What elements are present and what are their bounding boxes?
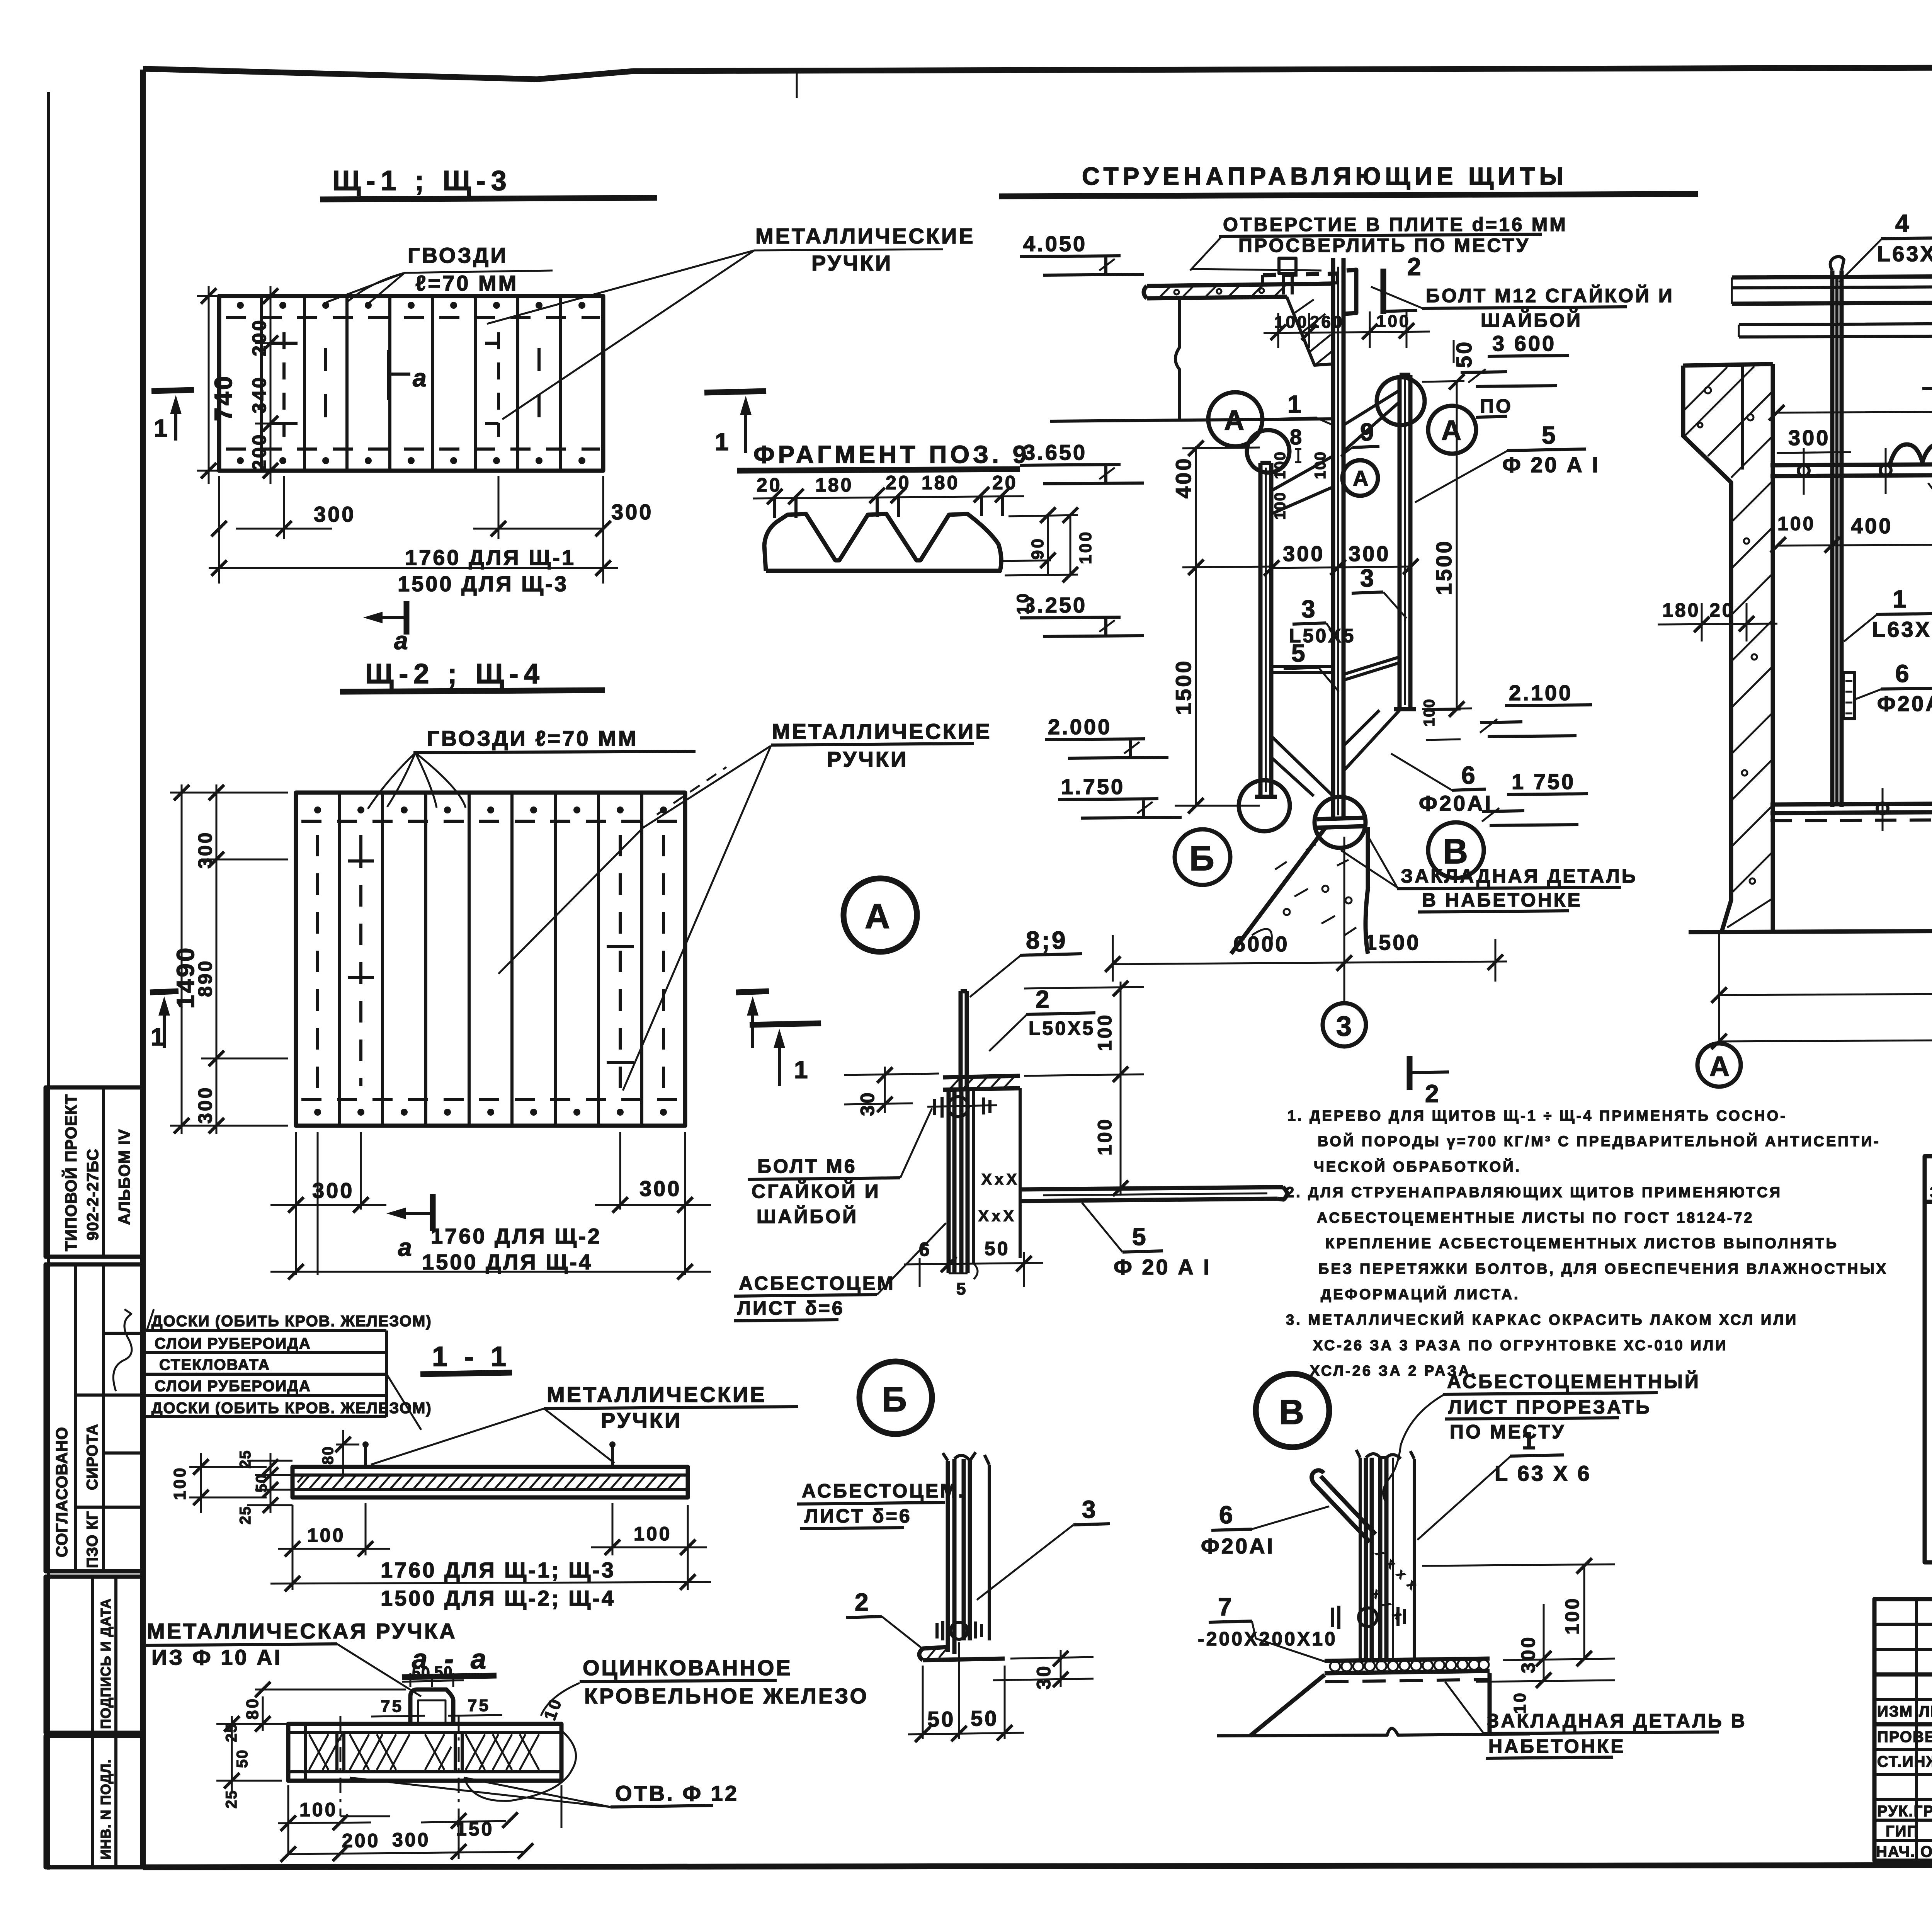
svg-text:А: А xyxy=(1709,1051,1731,1082)
svg-text:50: 50 xyxy=(971,1706,998,1730)
svg-text:ФРАГМЕНТ ПОЗ. 9: ФРАГМЕНТ ПОЗ. 9 xyxy=(753,441,1030,468)
svg-text:25: 25 xyxy=(223,1790,240,1809)
svg-text:СЛОИ РУБЕРОИДА: СЛОИ РУБЕРОИДА xyxy=(155,1335,311,1352)
main post L63 xyxy=(1333,258,1344,819)
svg-text:А: А xyxy=(1224,405,1246,436)
svg-text:А: А xyxy=(1441,415,1463,446)
svg-text:50: 50 xyxy=(927,1707,955,1731)
svg-text:МЕТАЛЛИЧЕСКИЕ: МЕТАЛЛИЧЕСКИЕ xyxy=(772,719,992,744)
svg-text:100: 100 xyxy=(1777,513,1815,534)
weld x marks on diagonal xyxy=(1369,1545,1421,1624)
hatched core segments xyxy=(309,1734,539,1770)
svg-text:ДЕФОРМАЦИЙ ЛИСТА.: ДЕФОРМАЦИЙ ЛИСТА. xyxy=(1321,1285,1520,1303)
svg-text:МЕТАЛЛИЧЕСКАЯ РУЧКА: МЕТАЛЛИЧЕСКАЯ РУЧКА xyxy=(147,1619,457,1643)
svg-text:3: 3 xyxy=(1301,595,1317,623)
svg-text:АСБЕСТОЦЕМЕНТНЫЙ: АСБЕСТОЦЕМЕНТНЫЙ xyxy=(1447,1370,1701,1392)
stamp box: project name xyxy=(46,1087,143,1257)
bottom section mark a xyxy=(430,1194,436,1231)
signature scribble xyxy=(113,1309,132,1391)
svg-text:5: 5 xyxy=(1291,639,1307,667)
svg-text:1500: 1500 xyxy=(1171,659,1196,715)
svg-text:400: 400 xyxy=(1851,514,1893,538)
svg-text:2. ДЛЯ СТРУЕНАПРАВЛЯЮЩИХ ЩИТО: 2. ДЛЯ СТРУЕНАПРАВЛЯЮЩИХ ЩИТОВ ПРИМЕНЯЮТ… xyxy=(1286,1184,1782,1201)
bolt M6 assembly xyxy=(927,1097,997,1118)
section mark 2 bottom xyxy=(1407,1056,1413,1090)
svg-text:А: А xyxy=(1353,466,1370,490)
angle leg with hatch xyxy=(943,1076,1020,1090)
svg-text:100: 100 xyxy=(1561,1597,1583,1635)
svg-text:Щ-2 ; Щ-4: Щ-2 ; Щ-4 xyxy=(365,658,545,689)
svg-text:300: 300 xyxy=(1788,425,1830,450)
svg-text:7: 7 xyxy=(1218,1593,1234,1621)
svg-text:1 - 1: 1 - 1 xyxy=(432,1341,511,1372)
svg-text:4.050: 4.050 xyxy=(1023,231,1087,256)
section mark 1 left xyxy=(151,390,194,391)
svg-text:ХС-26 ЗА 3 РАЗА ПО ОГРУНТ: ХС-26 ЗА 3 РАЗА ПО ОГРУНТОВКЕ ХС-010 ИЛИ xyxy=(1313,1337,1728,1354)
svg-text:ПЗО КГ: ПЗО КГ xyxy=(84,1511,101,1568)
circle joint right xyxy=(1377,377,1425,425)
svg-text:ПРОВЕР.: ПРОВЕР. xyxy=(1877,1729,1932,1746)
svg-text:ЭЛЕМЕНТА: ЭЛЕМЕНТА xyxy=(1930,1183,1932,1202)
svg-text:1.750: 1.750 xyxy=(1061,774,1125,799)
svg-text:100: 100 xyxy=(1312,451,1329,479)
handles on top xyxy=(366,1446,612,1467)
svg-text:ХхХ: ХхХ xyxy=(978,1208,1017,1225)
post 1 left xyxy=(1832,271,1842,807)
svg-text:Ф20АI: Ф20АI xyxy=(1877,691,1932,716)
dim 30 at B xyxy=(993,1650,1094,1687)
svg-text:1500: 1500 xyxy=(1432,539,1456,595)
circle mark A left xyxy=(1208,392,1262,446)
svg-text:а: а xyxy=(413,364,429,392)
layer list xyxy=(142,1309,432,1430)
svg-text:300: 300 xyxy=(1283,541,1325,566)
svg-text:100: 100 xyxy=(299,1799,337,1821)
svg-text:РУЧКИ: РУЧКИ xyxy=(811,251,893,275)
circled axis 3 xyxy=(1344,982,1345,1003)
section mark 2 top xyxy=(1381,269,1386,314)
svg-text:902-2-27БС: 902-2-27БС xyxy=(83,1148,102,1240)
bottom section mark a xyxy=(404,601,410,635)
bottom dims 100 200 300 150 xyxy=(278,1785,561,1859)
foundation pier xyxy=(1231,827,1368,954)
braces top xyxy=(1271,390,1400,514)
svg-text:СТРУЕНАПРАВЛЯЮЩИЕ ЩИТЫ: СТРУЕНАПРАВЛЯЮЩИЕ ЩИТЫ xyxy=(1082,162,1568,190)
sheet stack vertical xyxy=(948,1459,970,1654)
svg-text:СГАЙКОЙ И: СГАЙКОЙ И xyxy=(752,1180,881,1202)
svg-text:а: а xyxy=(398,1234,414,1261)
svg-text:1760 ДЛЯ Щ-2: 1760 ДЛЯ Щ-2 xyxy=(431,1224,602,1248)
section mark 1 right xyxy=(704,391,766,393)
upper sheet bar xyxy=(961,991,967,1090)
bolt at V foot xyxy=(1332,1606,1405,1629)
stamp box: soglasovano xyxy=(46,1264,143,1571)
svg-text:ЧЕСКОЙ ОБРАБОТКОЙ.: ЧЕСКОЙ ОБРАБОТКОЙ. xyxy=(1314,1158,1521,1175)
left dims 300 890 300 1490 xyxy=(170,784,288,1134)
svg-text:50: 50 xyxy=(434,1664,453,1681)
bottom dims 300 300 xyxy=(219,476,603,584)
svg-text:180: 180 xyxy=(922,472,959,493)
svg-text:180: 180 xyxy=(815,474,853,496)
svg-text:МЕТАЛЛИЧЕСКИЕ: МЕТАЛЛИЧЕСКИЕ xyxy=(755,224,975,248)
nail dots xyxy=(314,806,667,1116)
section mark 1 left of A xyxy=(750,1023,821,1025)
svg-text:Б: Б xyxy=(1189,839,1216,878)
svg-text:1: 1 xyxy=(1522,1427,1537,1455)
svg-text:1. ДЕРЕВО ДЛЯ ЩИТОВ Щ-1 ÷ Щ-4: 1. ДЕРЕВО ДЛЯ ЩИТОВ Щ-1 ÷ Щ-4 ПРИМЕНЯТЬ … xyxy=(1287,1108,1787,1124)
svg-text:ШАЙБОЙ: ШАЙБОЙ xyxy=(757,1205,858,1227)
svg-text:100: 100 xyxy=(1094,1013,1116,1051)
left dims 25 50 25 100 xyxy=(189,1453,293,1513)
corrugated profile 9 xyxy=(1889,441,1932,466)
panel section strip xyxy=(293,1467,688,1497)
svg-text:50: 50 xyxy=(1452,340,1476,368)
svg-text:ОТВ. Ф 12: ОТВ. Ф 12 xyxy=(615,1781,739,1805)
svg-text:Ф20АI: Ф20АI xyxy=(1419,791,1493,815)
left dim column 400 1500 xyxy=(1175,446,1275,806)
svg-text:Ф 20 А I: Ф 20 А I xyxy=(1114,1255,1211,1279)
circle mark a small xyxy=(1342,460,1378,496)
concrete wall left xyxy=(1683,364,1773,931)
svg-text:300: 300 xyxy=(1517,1635,1539,1673)
svg-text:8: 8 xyxy=(1290,425,1304,449)
svg-text:АСБЕСТОЦЕМ.: АСБЕСТОЦЕМ. xyxy=(802,1480,966,1502)
svg-text:75: 75 xyxy=(381,1697,403,1716)
svg-text:6: 6 xyxy=(1895,660,1911,687)
svg-text:100: 100 xyxy=(307,1524,345,1546)
far-left trim line xyxy=(47,92,50,1870)
bolt at foot xyxy=(937,1621,981,1640)
svg-text:3.650: 3.650 xyxy=(1023,440,1087,464)
svg-text:5: 5 xyxy=(1132,1223,1148,1251)
svg-text:3 600: 3 600 xyxy=(1492,331,1556,356)
circle joint left xyxy=(1247,430,1289,473)
svg-text:БОЛТ М6: БОЛТ М6 xyxy=(757,1155,857,1177)
svg-text:КРОВЕЛЬНОЕ ЖЕЛЕЗО: КРОВЕЛЬНОЕ ЖЕЛЕЗО xyxy=(584,1684,869,1708)
svg-text:300: 300 xyxy=(1349,541,1390,566)
handle loop on top xyxy=(410,1690,453,1724)
svg-text:20: 20 xyxy=(1709,599,1735,621)
svg-text:6: 6 xyxy=(1219,1501,1235,1529)
foot plate xyxy=(919,1647,1005,1660)
svg-text:ЛИСТ ПРОРЕЗАТЬ: ЛИСТ ПРОРЕЗАТЬ xyxy=(1448,1396,1651,1418)
svg-text:8;9: 8;9 xyxy=(1026,926,1068,954)
bottom dims 50 50 at B xyxy=(908,1642,1024,1739)
svg-text:300: 300 xyxy=(314,502,355,526)
svg-text:25: 25 xyxy=(237,1506,254,1525)
svg-text:3: 3 xyxy=(1082,1496,1098,1523)
svg-text:1: 1 xyxy=(1287,390,1303,418)
bottom dims 300 300 xyxy=(270,1132,711,1275)
svg-text:АСБЕСТОЦЕМ: АСБЕСТОЦЕМ xyxy=(739,1273,895,1294)
section mark 1 right xyxy=(736,991,769,992)
svg-text:400: 400 xyxy=(1171,457,1196,499)
svg-text:СИРОТА: СИРОТА xyxy=(84,1424,101,1490)
section mark 1 left xyxy=(150,991,179,992)
svg-text:20: 20 xyxy=(886,472,911,493)
svg-text:ВОЙ ПОРОДЫ γ=700 КГ/М³ С ПРЕДВ: ВОЙ ПОРОДЫ γ=700 КГ/М³ С ПРЕДВАРИТЕЛЬНОЙ… xyxy=(1318,1132,1881,1150)
sheets below bolt xyxy=(949,1090,968,1273)
batten dashed lines xyxy=(226,318,600,449)
wire xyxy=(796,71,798,98)
svg-text:СТЕКЛОВАТА: СТЕКЛОВАТА xyxy=(159,1356,270,1373)
dim 200 340 200 left xyxy=(197,286,282,484)
svg-text:6000: 6000 xyxy=(1233,932,1289,956)
bottom dims 3000 3000 6000 xyxy=(1719,929,1932,1043)
svg-text:1: 1 xyxy=(794,1056,810,1084)
svg-text:Ф20АI: Ф20АI xyxy=(1201,1534,1275,1558)
rod F20 going right xyxy=(1020,1187,1287,1201)
svg-text:340: 340 xyxy=(248,376,270,413)
svg-text:6: 6 xyxy=(1461,761,1477,789)
left asbestos sheet xyxy=(1255,463,1277,797)
svg-text:ИНВ. N ПОДЛ.: ИНВ. N ПОДЛ. xyxy=(98,1759,114,1860)
bottom dims 6000 1500 xyxy=(1113,837,1507,982)
svg-text:В НАБЕТОНКЕ: В НАБЕТОНКЕ xyxy=(1422,889,1582,911)
svg-text:1: 1 xyxy=(715,428,731,456)
svg-text:180: 180 xyxy=(1662,599,1700,621)
svg-text:3. МЕТАЛЛИЧЕСКИЙ КАРКАС ОКРАС: 3. МЕТАЛЛИЧЕСКИЙ КАРКАС ОКРАСИТЬ ЛАКОМ Х… xyxy=(1286,1311,1798,1328)
svg-text:100: 100 xyxy=(1272,492,1289,520)
svg-text:50: 50 xyxy=(412,1664,431,1681)
svg-text:Щ-1 ; Щ-3: Щ-1 ; Щ-3 xyxy=(332,165,512,196)
svg-text:ШАЙБОЙ: ШАЙБОЙ xyxy=(1481,309,1582,331)
svg-text:КРЕПЛЕНИЕ АСБЕСТОЦЕМЕНТНЫХ Л: КРЕПЛЕНИЕ АСБЕСТОЦЕМЕНТНЫХ ЛИСТОВ ВЫПОЛН… xyxy=(1325,1235,1838,1252)
circled A detail xyxy=(844,878,917,952)
svg-text:РУЧКИ: РУЧКИ xyxy=(601,1408,682,1433)
bottom rail xyxy=(1770,800,1932,813)
dim 80 handle xyxy=(336,1430,359,1474)
batten dashed lines xyxy=(301,821,680,1099)
svg-text:30: 30 xyxy=(857,1091,878,1116)
svg-text:9: 9 xyxy=(1360,418,1376,446)
svg-text:200: 200 xyxy=(248,433,270,471)
handle bolts dashed xyxy=(284,332,498,437)
bottom circles xyxy=(1239,780,1290,831)
top slab hatched xyxy=(1050,284,1334,421)
svg-text:5: 5 xyxy=(956,1279,968,1298)
a-a strip drawing xyxy=(288,1724,561,1781)
svg-text:200: 200 xyxy=(342,1830,380,1851)
svg-text:ГВОЗДИ: ГВОЗДИ xyxy=(408,243,508,267)
svg-text:25: 25 xyxy=(237,1450,254,1469)
table grid xyxy=(1925,1156,1932,1562)
svg-text:50: 50 xyxy=(985,1238,1010,1259)
insulation hatch xyxy=(298,1476,688,1489)
stamp box: signature and date xyxy=(46,1577,143,1733)
anchor plate and bolt at top xyxy=(1263,258,1356,314)
svg-text:25: 25 xyxy=(223,1724,240,1742)
svg-text:1500 ДЛЯ Щ-3: 1500 ДЛЯ Щ-3 xyxy=(398,572,568,596)
svg-text:-200X200X10: -200X200X10 xyxy=(1198,1628,1337,1650)
svg-text:100: 100 xyxy=(1274,313,1308,332)
svg-text:НАБЕТОНКЕ: НАБЕТОНКЕ xyxy=(1488,1735,1626,1757)
bolts through strip xyxy=(337,1732,462,1772)
ground line xyxy=(1689,927,1932,932)
svg-text:300: 300 xyxy=(639,1176,681,1201)
svg-text:ОЦИНКОВАННОЕ: ОЦИНКОВАННОЕ xyxy=(583,1655,793,1680)
svg-text:ОТВЕРСТИЕ В ПЛИТЕ d=16 ММ: ОТВЕРСТИЕ В ПЛИТЕ d=16 ММ xyxy=(1223,214,1568,235)
svg-text:2.100: 2.100 xyxy=(1509,681,1573,705)
svg-text:ПРОСВЕРЛИТЬ ПО МЕСТУ: ПРОСВЕРЛИТЬ ПО МЕСТУ xyxy=(1238,235,1530,256)
post sheets vertical xyxy=(1366,1458,1386,1659)
svg-text:740: 740 xyxy=(209,374,237,421)
svg-text:6: 6 xyxy=(919,1239,932,1260)
svg-text:75: 75 xyxy=(468,1696,490,1715)
svg-text:100: 100 xyxy=(1094,1118,1116,1155)
tie angle mid xyxy=(1271,657,1400,680)
svg-text:2: 2 xyxy=(1425,1080,1441,1108)
nail dots top xyxy=(237,302,585,464)
svg-text:200: 200 xyxy=(248,318,270,356)
svg-text:А: А xyxy=(865,897,892,936)
left dims 80 25 50 25 xyxy=(216,1690,406,1793)
svg-text:300: 300 xyxy=(312,1178,354,1203)
svg-text:100: 100 xyxy=(1421,698,1438,727)
fragment right dims 90 100 10 xyxy=(1002,515,1078,575)
section flag a in panel xyxy=(388,350,410,400)
svg-text:ПОДПИСЬ И ДАТА: ПОДПИСЬ И ДАТА xyxy=(98,1598,114,1729)
svg-text:3: 3 xyxy=(1336,1011,1354,1042)
svg-text:50: 50 xyxy=(234,1749,251,1768)
svg-text:1: 1 xyxy=(151,1023,167,1051)
svg-text:ДОСКИ (ОБИТЬ КРОВ. ЖЕЛЕЗОМ): ДОСКИ (ОБИТЬ КРОВ. ЖЕЛЕЗОМ) xyxy=(151,1313,432,1330)
svg-text:300: 300 xyxy=(392,1829,430,1851)
svg-text:80: 80 xyxy=(243,1697,262,1720)
svg-text:ГИП: ГИП xyxy=(1886,1823,1919,1840)
svg-text:100: 100 xyxy=(634,1523,672,1545)
svg-text:100: 100 xyxy=(170,1466,189,1500)
svg-text:300: 300 xyxy=(194,831,216,869)
svg-text:2: 2 xyxy=(855,1588,871,1616)
dims 50 50 handle xyxy=(402,1673,464,1687)
svg-text:ЗАКЛАДНАЯ ДЕТАЛЬ: ЗАКЛАДНАЯ ДЕТАЛЬ xyxy=(1401,865,1638,887)
right asbestos sheet xyxy=(1394,375,1416,709)
svg-text:1500 ДЛЯ Щ-4: 1500 ДЛЯ Щ-4 xyxy=(422,1250,593,1274)
svg-text:ГВОЗДИ ℓ=70 ММ: ГВОЗДИ ℓ=70 ММ xyxy=(427,726,638,750)
svg-text:СОГЛАСОВАНО: СОГЛАСОВАНО xyxy=(53,1427,71,1557)
base plate with welds xyxy=(1325,1659,1490,1673)
upper rail with holes xyxy=(1770,461,1932,476)
svg-text:L50X5: L50X5 xyxy=(1029,1017,1095,1039)
svg-text:ИЗ Ф 10 АI: ИЗ Ф 10 АI xyxy=(151,1645,282,1669)
dim 30 xyxy=(844,1067,939,1113)
plank joints xyxy=(262,296,561,471)
svg-text:1500: 1500 xyxy=(1365,930,1421,954)
svg-text:1490: 1490 xyxy=(172,946,199,1009)
svg-text:СТ.ИНЖ.: СТ.ИНЖ. xyxy=(1877,1753,1932,1770)
svg-text:100: 100 xyxy=(1376,312,1410,331)
post base plate xyxy=(1317,818,1364,828)
diagonal rod F20 xyxy=(1311,1470,1376,1542)
svg-text:ХхХ: ХхХ xyxy=(981,1171,1020,1188)
svg-text:АСБЕСТОЦЕМЕНТНЫЕ ЛИСТЫ ПО ГО: АСБЕСТОЦЕМЕНТНЫЕ ЛИСТЫ ПО ГОСТ 18124-72 xyxy=(1317,1210,1754,1226)
svg-text:АЛЬБОМ IV: АЛЬБОМ IV xyxy=(115,1129,133,1225)
svg-text:ℓ=70 ММ: ℓ=70 ММ xyxy=(415,271,518,295)
svg-text:ЛИСТ: ЛИСТ xyxy=(1919,1703,1932,1720)
svg-text:МЕТАЛЛИЧЕСКИЕ: МЕТАЛЛИЧЕСКИЕ xyxy=(547,1382,767,1407)
title block grid xyxy=(1874,1599,1932,1861)
svg-text:2: 2 xyxy=(1407,253,1423,281)
svg-text:ПО МЕСТУ: ПО МЕСТУ xyxy=(1450,1421,1566,1443)
svg-text:L63X6: L63X6 xyxy=(1872,617,1932,641)
svg-text:1760 ДЛЯ Щ-1; Щ-3: 1760 ДЛЯ Щ-1; Щ-3 xyxy=(381,1558,616,1582)
circled B detail xyxy=(859,1361,932,1434)
svg-text:30: 30 xyxy=(1033,1664,1054,1690)
svg-text:50: 50 xyxy=(253,1474,270,1493)
svg-text:3.250: 3.250 xyxy=(1023,593,1087,617)
svg-text:300: 300 xyxy=(611,500,653,524)
svg-text:СЛОИ РУБЕРОИДА: СЛОИ РУБЕРОИДА xyxy=(155,1378,311,1395)
braces bottom xyxy=(1271,710,1400,796)
svg-text:1: 1 xyxy=(1893,585,1908,613)
svg-text:4: 4 xyxy=(1895,209,1911,237)
panel Щ-1 outline xyxy=(219,296,603,471)
svg-text:1 750: 1 750 xyxy=(1512,769,1575,794)
circled V mark xyxy=(1428,822,1484,878)
top beam chords xyxy=(1732,273,1932,304)
svg-text:1760 ДЛЯ Щ-1: 1760 ДЛЯ Щ-1 xyxy=(405,545,576,570)
svg-text:100: 100 xyxy=(1272,451,1289,479)
svg-text:150: 150 xyxy=(456,1818,494,1840)
svg-text:БОЛТ М12 СГАЙКОЙ И: БОЛТ М12 СГАЙКОЙ И xyxy=(1426,284,1674,306)
bottom dims 6 50 xyxy=(904,1252,1043,1287)
svg-text:10: 10 xyxy=(1510,1691,1529,1714)
plank joints xyxy=(339,793,642,1126)
svg-text:2: 2 xyxy=(1036,985,1051,1013)
circled axis A xyxy=(1697,1043,1741,1087)
svg-text:L 63 X 6: L 63 X 6 xyxy=(1495,1461,1592,1485)
svg-text:ХСЛ-26 ЗА 2 РАЗА.: ХСЛ-26 ЗА 2 РАЗА. xyxy=(1310,1363,1477,1379)
total dim 1760/1500 xyxy=(209,567,618,569)
svg-text:ЛИСТ δ=6: ЛИСТ δ=6 xyxy=(737,1297,845,1319)
svg-text:ЛИСТ δ=6: ЛИСТ δ=6 xyxy=(804,1505,912,1527)
svg-text:ПО: ПО xyxy=(1480,395,1513,417)
svg-text:1500 ДЛЯ Щ-2; Щ-4: 1500 ДЛЯ Щ-2; Щ-4 xyxy=(381,1586,616,1610)
circled B mark xyxy=(1175,829,1230,885)
svg-text:ИЗМ: ИЗМ xyxy=(1877,1703,1913,1720)
svg-text:Б: Б xyxy=(882,1380,909,1419)
circled V detail xyxy=(1256,1374,1329,1447)
svg-text:НАЧ. ОТД: НАЧ. ОТД xyxy=(1876,1843,1932,1860)
dim 1500 right xyxy=(1422,381,1472,709)
svg-text:100: 100 xyxy=(1076,530,1095,564)
svg-text:Ф 20 А I: Ф 20 А I xyxy=(1502,453,1600,477)
foundation mound V xyxy=(1250,1673,1490,1736)
dims right at V 100 300 10 xyxy=(1422,1564,1615,1682)
svg-text:2.000: 2.000 xyxy=(1048,715,1112,739)
svg-text:ДОСКИ (ОБИТЬ КРОВ. ЖЕЛЕЗОМ): ДОСКИ (ОБИТЬ КРОВ. ЖЕЛЕЗОМ) xyxy=(151,1400,432,1417)
clip on post1 xyxy=(1843,672,1855,719)
handle bolts dashed verticals xyxy=(318,835,663,1097)
bottom dims 100 / 100 xyxy=(278,1503,707,1590)
dims 100 100 right of A xyxy=(1024,982,1144,1194)
svg-text:80: 80 xyxy=(320,1446,337,1465)
svg-text:В: В xyxy=(1279,1393,1306,1432)
svg-text:L63X6: L63X6 xyxy=(1877,242,1932,266)
svg-text:90: 90 xyxy=(1028,537,1047,560)
corrugated sheet profile xyxy=(764,514,1001,571)
svg-text:БЕЗ ПЕРЕТЯЖКИ БОЛТОВ, ДЛЯ ОБЕС: БЕЗ ПЕРЕТЯЖКИ БОЛТОВ, ДЛЯ ОБЕСПЕЧЕНИЯ ВЛ… xyxy=(1318,1261,1888,1277)
stamp box: inventory number xyxy=(46,1736,143,1867)
circle mark A right xyxy=(1428,406,1476,454)
svg-text:РУК.ГР.: РУК.ГР. xyxy=(1877,1803,1932,1820)
SEC:notes xyxy=(1286,1108,1888,1379)
svg-text:ТИПОВОЙ ПРОЕКТ: ТИПОВОЙ ПРОЕКТ xyxy=(61,1094,80,1251)
svg-text:5: 5 xyxy=(1542,421,1558,449)
panel Щ-2 outline xyxy=(296,793,685,1126)
svg-text:а: а xyxy=(394,627,410,655)
